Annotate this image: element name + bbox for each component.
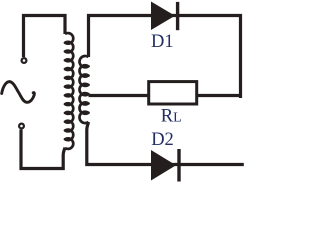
svg-text:RL: RL — [161, 107, 182, 127]
svg-text:D2: D2 — [151, 130, 174, 150]
svg-text:D1: D1 — [151, 32, 174, 52]
